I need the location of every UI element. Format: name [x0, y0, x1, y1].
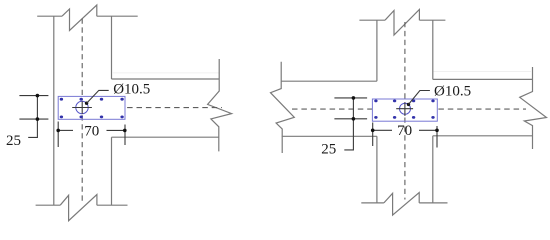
- leader dot: [407, 103, 410, 106]
- column centerline upper dashed: [404, 22, 406, 102]
- dimension 70 line right segment: [419, 129, 437, 131]
- bolt hole circle: [400, 103, 411, 114]
- dimension 70 witness line right: [436, 126, 438, 148]
- left beam top edge: [282, 80, 377, 82]
- bolt hole circle: [76, 101, 88, 113]
- dimension 70 dot right: [435, 129, 439, 133]
- dimension 25 dot top: [352, 96, 356, 100]
- bolted plate outline: [58, 96, 125, 119]
- dimension 25 witness line bottom: [334, 118, 367, 120]
- column cut line top left segment: [359, 19, 385, 21]
- column centerline lower dashed: [404, 118, 406, 200]
- dimension 25 dot top: [36, 94, 40, 98]
- hole centerline horizontal: [72, 107, 92, 109]
- right beam centerline dashed: [438, 108, 526, 110]
- bolt hole markers top row: [60, 98, 124, 101]
- column left edge above beam: [376, 20, 378, 81]
- break line symbol bottom of column: [60, 195, 97, 221]
- column left edge below beam: [376, 136, 378, 203]
- dimension 70 witness line left: [372, 123, 374, 147]
- dimension 70 line left segment: [58, 129, 73, 131]
- hole centerline horizontal: [396, 108, 413, 110]
- column cut line top right segment: [419, 19, 445, 21]
- faint construction line above beam: [112, 72, 219, 74]
- bolt hole markers bottom row: [374, 116, 435, 119]
- left beam bottom edge: [282, 135, 377, 137]
- column right edge below beam: [111, 137, 113, 205]
- column left edge: [53, 16, 55, 205]
- beam bottom edge: [112, 136, 219, 138]
- dimension 25 line vertical: [28, 96, 37, 138]
- hole centerline vertical: [81, 101, 83, 114]
- leader line to hole label: [409, 91, 430, 105]
- break line symbol right end of beam: [208, 59, 232, 151]
- column centerline lower dashed: [81, 115, 83, 202]
- dimension 25 witness line top: [19, 95, 48, 97]
- dimension 70 dot right: [123, 129, 127, 133]
- dimension 25 line vertical: [344, 98, 353, 150]
- break line symbol top of column: [385, 10, 419, 36]
- dimension 25 witness line bottom: [19, 118, 48, 120]
- leader line to hole label: [87, 90, 109, 103]
- right beam bottom edge: [433, 135, 533, 137]
- hole centerline vertical: [404, 102, 406, 116]
- column cut line top right segment: [97, 15, 138, 17]
- dimension 25 witness line top: [334, 97, 367, 99]
- column right edge below beam: [432, 136, 434, 203]
- dimension 70 witness line right: [124, 125, 126, 146]
- svg-text:70: 70: [397, 123, 412, 139]
- column centerline upper dashed: [81, 19, 83, 101]
- break line symbol left end of left beam: [271, 62, 295, 153]
- break line symbol top of column: [62, 5, 97, 31]
- column bottom cut line left segment: [361, 202, 384, 204]
- column cut line top left segment: [37, 15, 62, 17]
- dimension 70 dot left: [371, 129, 375, 133]
- beam centerline dashed: [127, 107, 222, 109]
- column bottom cut line left segment: [36, 204, 61, 206]
- dimension 25 dot bottom: [352, 117, 356, 121]
- svg-text:Ø10.5: Ø10.5: [113, 81, 150, 97]
- svg-text:Ø10.5: Ø10.5: [434, 83, 471, 99]
- bolt hole markers bottom row: [60, 116, 124, 119]
- svg-text:25: 25: [321, 141, 336, 157]
- dimension 70 line right segment: [107, 129, 125, 131]
- left beam centerline dashed: [292, 108, 372, 110]
- leader dot: [85, 102, 88, 105]
- break line symbol right end of right beam: [520, 67, 547, 149]
- svg-text:25: 25: [6, 133, 21, 149]
- dimension 70 witness line left: [57, 122, 59, 148]
- bolt hole markers top row: [374, 100, 435, 103]
- right beam top edge: [433, 78, 533, 80]
- column bottom cut line right segment: [97, 204, 128, 206]
- dimension 25 dot bottom: [36, 117, 40, 121]
- column right edge above beam: [111, 16, 113, 79]
- faint construction line above right beam: [434, 71, 532, 73]
- bolted plate outline: [372, 99, 437, 121]
- dimension 70 dot left: [56, 129, 60, 133]
- column right edge above beam: [432, 20, 434, 79]
- dimension 70 line left segment: [373, 129, 392, 131]
- break line symbol bottom of column: [384, 193, 419, 216]
- beam top edge: [112, 78, 220, 80]
- svg-text:70: 70: [84, 123, 99, 139]
- column bottom cut line right segment: [419, 202, 447, 204]
